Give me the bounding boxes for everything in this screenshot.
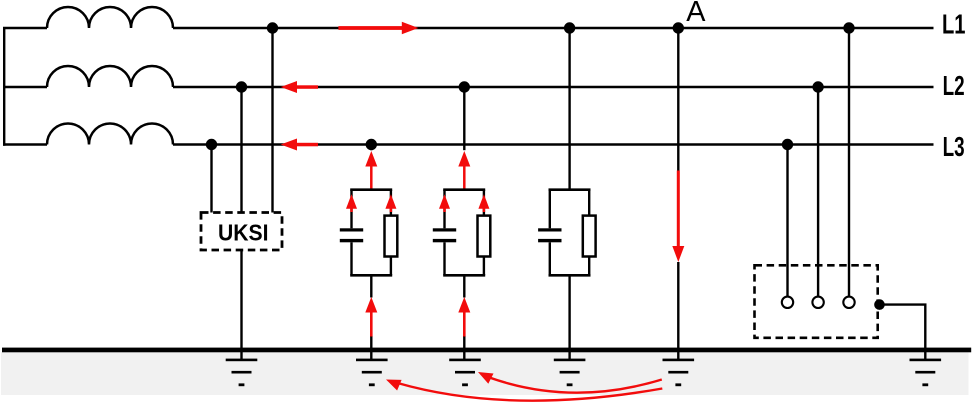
resistor R of RC cell Z2 bbox=[478, 216, 491, 257]
RC cell Z1 top bar bbox=[350, 188, 392, 191]
wire: phase line L3 bbox=[3, 143, 934, 145]
junction on L3 (device tap) bbox=[782, 139, 793, 150]
terminal circle 2 bbox=[812, 297, 823, 308]
capacitor C of RC cell Z3 bbox=[538, 228, 561, 242]
ground symbol G2 (Z1) bbox=[356, 359, 388, 387]
RC cell Z1 bottom bar bbox=[350, 274, 392, 277]
red current arrow up in RC cell Z2 resistor branch bbox=[478, 194, 489, 212]
wire: RC cell Z1 capacitor branch upper lead bbox=[350, 190, 352, 229]
wire: RC cell Z1 earth lead (black lower part) bbox=[370, 337, 372, 361]
wire: RC cell Z1 resistor branch lower lead bbox=[390, 257, 392, 276]
junction on device output bbox=[874, 299, 885, 310]
capacitor C of RC cell Z2 bbox=[433, 228, 456, 242]
wire: fault branch from node A (black upper part) bbox=[677, 28, 679, 172]
RC cell Z3 top bar bbox=[549, 188, 591, 191]
ground symbol G4 (Z3) bbox=[554, 359, 586, 387]
wire: RC cell Z2 resistor branch upper lead bbox=[483, 190, 485, 216]
red current arrow up into phase line at RC cell Z1 bbox=[365, 151, 377, 191]
wire: RC cell Z1 resistor branch upper lead bbox=[390, 190, 392, 216]
device U1 UKSI box bbox=[201, 213, 282, 251]
red fault current arrow down bbox=[672, 171, 684, 263]
wire: RC cell Z1 earth lead (black upper part) bbox=[370, 275, 372, 297]
earth region (soil) bbox=[1, 352, 969, 395]
RC cell Z3 bottom bar bbox=[549, 274, 591, 277]
wire: device earthing conductor bbox=[880, 305, 926, 360]
wire: voltage transformer lead from L3 bbox=[786, 145, 788, 297]
junction on L3 (UKSI tap) bbox=[206, 139, 217, 150]
inductor winding W2 (phase L2) bbox=[47, 66, 173, 87]
red current arrow left on L2 bbox=[281, 81, 318, 93]
junction on L2 (UKSI tap) bbox=[236, 81, 247, 92]
red current arrow up into phase line at RC cell Z2 bbox=[458, 151, 470, 191]
red current arrow up in RC cell Z1 capacitor branch bbox=[346, 194, 357, 212]
inductor winding W1 (phase L1) bbox=[47, 7, 173, 28]
measuring device box (dashed) bbox=[755, 265, 878, 338]
wire: UKSI tap from L3 bbox=[210, 145, 212, 213]
wire: source common bus (left vertical) bbox=[3, 27, 5, 146]
wire: RC cell Z2 capacitor branch lower lead bbox=[443, 242, 445, 275]
junction on L1 (Z3 tap) bbox=[564, 22, 575, 33]
wire: voltage transformer lead from L1 bbox=[848, 28, 850, 296]
wire: RC cell Z2 resistor branch lower lead bbox=[483, 257, 485, 276]
red return current arc to G3 (Z2 ground) bbox=[478, 372, 662, 393]
junction on L3 (Z1 tap) bbox=[366, 139, 377, 150]
red current arrow up in RC cell Z2 capacitor branch bbox=[439, 194, 450, 212]
RC cell Z2 top bar bbox=[443, 188, 485, 191]
red return current arc to G2 (Z1 ground) bbox=[386, 380, 662, 401]
wire: RC cell Z3 connection from phase line bbox=[568, 28, 570, 190]
svg-text:L3: L3 bbox=[943, 131, 965, 162]
junction on L2 (device tap) bbox=[812, 81, 823, 92]
wire: RC cell Z2 earth lead (black upper part) bbox=[463, 275, 465, 297]
wire: phase line L1 bbox=[3, 27, 934, 29]
node A junction on L1 bbox=[673, 22, 684, 33]
red current arrow right on L1 bbox=[338, 22, 418, 34]
red current arrow up in RC cell Z1 earth lead bbox=[365, 297, 377, 337]
svg-text:L1: L1 bbox=[942, 8, 966, 39]
terminal circle 1 bbox=[782, 297, 793, 308]
wire: UKSI tap from L1 bbox=[271, 28, 273, 213]
wire: RC cell Z1 connection from phase line (black part) bbox=[370, 145, 372, 151]
resistor R of RC cell Z1 bbox=[385, 216, 398, 257]
wire: RC cell Z2 earth lead (black lower part) bbox=[463, 337, 465, 361]
wire: RC cell Z2 connection from phase line (black part) bbox=[463, 87, 465, 150]
svg-text:UKSI: UKSI bbox=[218, 220, 269, 246]
junction on L1 (device tap) bbox=[843, 22, 854, 33]
wire: RC cell Z3 earth lead bbox=[568, 275, 570, 360]
svg-text:L2: L2 bbox=[943, 70, 965, 101]
ground symbol G6 (device) bbox=[910, 359, 942, 387]
wire: RC cell Z2 capacitor branch upper lead bbox=[443, 190, 445, 229]
svg-text:A: A bbox=[686, 0, 706, 28]
wire: UKSI tap from L2 bbox=[240, 87, 242, 213]
red current arrow up in RC cell Z2 earth lead bbox=[458, 297, 470, 337]
wire: RC cell Z1 capacitor branch lower lead bbox=[350, 242, 352, 275]
junction on L2 (Z2 tap) bbox=[459, 81, 470, 92]
resistor R of RC cell Z3 bbox=[583, 216, 596, 257]
wire: RC cell Z3 resistor branch lower lead bbox=[588, 257, 590, 276]
wire: RC cell Z3 capacitor branch upper lead bbox=[549, 190, 551, 229]
terminal circle 3 bbox=[843, 297, 854, 308]
earth bus (thick ground line) bbox=[2, 348, 971, 353]
junction on L1 (UKSI tap) bbox=[267, 22, 278, 33]
inductor winding W3 (phase L3) bbox=[47, 124, 173, 145]
wire: RC cell Z3 resistor branch upper lead bbox=[588, 190, 590, 216]
ground symbol G1 (UKSI) bbox=[226, 359, 258, 387]
red current arrow up in RC cell Z1 resistor branch bbox=[385, 194, 396, 212]
wire: UKSI earthing conductor bbox=[240, 250, 242, 360]
RC cell Z2 bottom bar bbox=[443, 274, 485, 277]
wire: phase line L2 bbox=[3, 86, 934, 88]
wire: fault branch to earth (black lower part) bbox=[677, 262, 679, 360]
wire: voltage transformer lead from L2 bbox=[817, 87, 819, 296]
red current arrow left on L3 bbox=[281, 139, 318, 151]
capacitor C of RC cell Z1 bbox=[340, 228, 363, 242]
ground symbol G3 (Z2) bbox=[449, 359, 481, 387]
ground symbol G5 (fault) bbox=[663, 359, 695, 387]
wire: RC cell Z3 capacitor branch lower lead bbox=[549, 242, 551, 275]
